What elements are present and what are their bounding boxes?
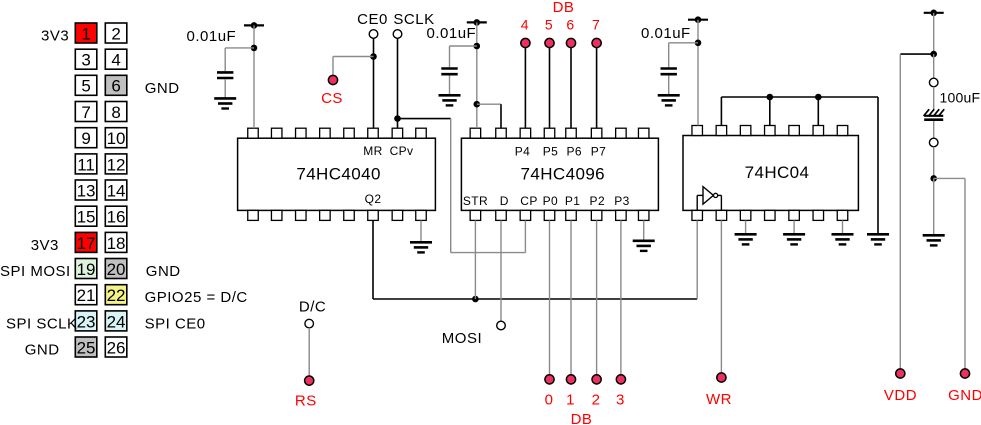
ground for C1 [214, 98, 236, 108]
ground for C3 [658, 95, 680, 105]
terminal VDD [896, 369, 905, 378]
connector J1 pin 15 [75, 206, 97, 226]
terminal DB2 [592, 375, 601, 384]
terminal DB7 [592, 38, 601, 47]
U3 top pin 4 [765, 126, 776, 136]
wire U2 P3 pin down to DB3 [620, 220, 622, 374]
svg-text:13: 13 [77, 181, 96, 200]
svg-text:CS: CS [321, 90, 343, 107]
svg-text:19: 19 [77, 260, 96, 279]
svg-text:CE0: CE0 [357, 11, 388, 28]
junction U3 top pin 4 [767, 94, 774, 101]
connector J1 pin 14 [105, 180, 127, 200]
connector J1 pin 21 [75, 285, 97, 305]
node CE0 [369, 30, 378, 39]
svg-text:4: 4 [521, 17, 529, 33]
connector J1 pin 23 (SPI SCLK) [75, 311, 97, 331]
capacitor C4 100uF electrolytic [924, 109, 945, 120]
node D/C [305, 319, 314, 328]
svg-text:GND: GND [25, 342, 60, 359]
connector J1 pin 16 [105, 206, 127, 226]
connector J1 pin 18 [105, 232, 127, 252]
wire rail down to ground symbol [933, 178, 935, 234]
connector J1 pin 24 (SPI CE0) [105, 311, 127, 331]
ground at U2 pin 8 [633, 241, 655, 251]
ground at U3 pin [735, 234, 757, 244]
svg-text:CP: CP [520, 194, 537, 208]
wire SCLK branch to U2 CP pin [398, 119, 526, 253]
terminal RS [305, 376, 314, 385]
wire U2 P2 pin down to DB2 [596, 220, 598, 374]
svg-text:17: 17 [77, 234, 96, 253]
wire CE0 down to U1 MR pin [373, 38, 375, 128]
wire D/C down to RS [308, 328, 310, 376]
wire rail to C4 top terminal [933, 54, 935, 78]
terminal WR [717, 373, 726, 382]
capacitor C2 0.01uF [441, 46, 457, 95]
U1 bottom pin 6 [368, 210, 379, 220]
wire 3V3 rail down to U1 pin (VDD) [253, 25, 255, 128]
ground at U3 pin [783, 234, 805, 244]
svg-text:MOSI: MOSI [442, 330, 482, 347]
connector J1 pin 10 [105, 128, 127, 148]
svg-text:P5: P5 [543, 144, 558, 158]
svg-text:GND: GND [146, 263, 181, 280]
wire U2 P0 pin down to DB0 [549, 220, 551, 374]
svg-text:15: 15 [77, 208, 96, 227]
wire U2 D pin down to MOSI [500, 220, 502, 321]
svg-text:0: 0 [545, 392, 554, 409]
svg-text:5: 5 [81, 77, 90, 96]
U1 bottom pin 8 [416, 210, 427, 220]
wire DB4 down to U2 P4 pin [524, 48, 526, 129]
svg-text:1: 1 [81, 24, 90, 43]
U1 bottom pin 3 [296, 210, 307, 220]
svg-text:P1: P1 [565, 194, 580, 208]
connector J1 pin 12 [105, 154, 127, 174]
svg-text:74HC4096: 74HC4096 [521, 165, 605, 184]
svg-text:8: 8 [111, 103, 120, 122]
U1 top pin 8 [416, 128, 427, 138]
U2 top pin 5 [566, 128, 577, 138]
node SCLK [393, 30, 402, 39]
ground for U3 unused inputs [867, 234, 889, 244]
svg-text:GPIO25 = D/C: GPIO25 = D/C [145, 289, 248, 306]
terminal DB3 [616, 375, 625, 384]
wire Q2 net from U1 to U3 input [373, 220, 697, 299]
U2 bottom pin 1 [470, 210, 481, 220]
svg-text:0.01uF: 0.01uF [187, 28, 237, 45]
wire GND branch right and down to terminal [934, 178, 965, 369]
svg-text:0.01uF: 0.01uF [641, 25, 691, 42]
U1 bottom pin 7 [392, 210, 403, 220]
wire CS elbow [333, 57, 374, 76]
junction GND branch [930, 175, 937, 182]
terminal CS [328, 75, 337, 84]
U1 bottom pin 5 [344, 210, 355, 220]
wire to C3 [669, 42, 698, 44]
svg-text:9: 9 [81, 129, 90, 148]
wire DB5 down to U2 P5 pin [549, 48, 551, 129]
wire branch to U2 pin 2 [477, 104, 501, 128]
svg-text:DB: DB [571, 411, 593, 425]
U2 bottom pin 4 [544, 210, 555, 220]
svg-text:MR: MR [363, 144, 382, 158]
ground at U1 pin 8 [410, 242, 432, 252]
svg-text:7: 7 [81, 103, 90, 122]
junction SCLK branch [394, 115, 401, 122]
connector J1 pin 4 [105, 49, 127, 69]
wire supply rail down [933, 13, 935, 54]
U1 top pin 5 [344, 128, 355, 138]
3V3 power tick for U3 rail [688, 16, 708, 23]
U3 bottom pin 1 [692, 210, 703, 220]
terminal DB1 [566, 375, 575, 384]
svg-text:P4: P4 [515, 144, 530, 158]
svg-text:74HC4040: 74HC4040 [296, 165, 380, 184]
connector J1 pin 7 [75, 102, 97, 122]
svg-text:25: 25 [77, 338, 96, 357]
svg-text:100uF: 100uF [940, 90, 981, 106]
junction STR tap [472, 296, 479, 303]
svg-text:P3: P3 [614, 194, 629, 208]
connector J1 pin 9 [75, 128, 97, 148]
svg-text:RS: RS [295, 393, 317, 410]
junction at C1 tap [251, 45, 258, 52]
U3 bottom pin 6 [813, 210, 824, 220]
junction U3 top pin 6 [815, 94, 822, 101]
svg-text:CPv: CPv [390, 144, 414, 158]
connector J1 pin 11 [75, 154, 97, 174]
terminal DB0 [545, 375, 554, 384]
junction at C3 tap [695, 40, 702, 47]
node MOSI [497, 321, 506, 330]
svg-text:3: 3 [81, 51, 90, 70]
junction VDD branch [930, 51, 937, 58]
svg-text:Q2: Q2 [365, 192, 382, 206]
U2 bottom pin 3 [520, 210, 531, 220]
svg-text:3V3: 3V3 [31, 237, 59, 254]
svg-text:14: 14 [107, 181, 126, 200]
svg-text:D/C: D/C [299, 299, 326, 316]
wire to C1 [225, 47, 254, 49]
svg-text:6: 6 [566, 17, 574, 33]
wire to C2 [450, 45, 477, 47]
IC U2 74HC4096 body [461, 138, 658, 210]
inverter gate inside U3 [697, 187, 721, 211]
wire DB7 down to U2 P7 pin [596, 48, 598, 129]
svg-text:2: 2 [111, 24, 120, 43]
junction at C2 tap [474, 43, 481, 50]
terminal DB5 [545, 38, 554, 47]
U3 top pin 2 [716, 126, 727, 136]
connector J1 pin 6 (GND) [105, 75, 127, 95]
U1 top pin 2 [271, 128, 282, 138]
U2 top pin 1 [470, 128, 481, 138]
svg-text:26: 26 [107, 338, 126, 357]
U1 bottom pin 1 [248, 210, 259, 220]
connector J1 pin 5 [75, 75, 97, 95]
wire DB6 down to U2 P6 pin [570, 48, 572, 129]
connector pin above C4 [929, 78, 938, 87]
U3 bottom pin 4 [765, 210, 776, 220]
connector J1 pin 2 [105, 23, 127, 43]
connector J1 pin 3 [75, 49, 97, 69]
svg-text:P6: P6 [566, 144, 581, 158]
U3 bottom pin 5 [789, 210, 800, 220]
wire U3 inverter output to WR [720, 220, 722, 373]
svg-text:D: D [500, 194, 509, 208]
svg-text:20: 20 [107, 260, 126, 279]
svg-text:GND: GND [145, 80, 180, 97]
wire SCLK down to U1 CPv pin [397, 38, 399, 128]
connector J1 pin 20 (GND) [105, 259, 127, 279]
svg-text:6: 6 [111, 77, 120, 96]
ground for supply rail [923, 235, 945, 245]
U2 top pin 4 [544, 128, 555, 138]
svg-text:1: 1 [566, 392, 575, 409]
U2 top pin 8 [638, 128, 649, 138]
connector J1 pin 13 [75, 180, 97, 200]
svg-text:74HC04: 74HC04 [745, 163, 810, 182]
junction CS tap [370, 53, 377, 60]
connector J1 pin 17 (3V3) [75, 232, 97, 252]
U3 bottom pin 2 [716, 210, 727, 220]
wire 3V3 rail down to U3 pin 1 [697, 20, 699, 126]
U2 top pin 7 [616, 128, 627, 138]
wire 3V3 rail down to U2 pin 1 [476, 22, 478, 128]
terminal GND [960, 369, 969, 378]
wire down to GND junction [933, 147, 935, 179]
U3 top pin 1 [692, 126, 703, 136]
wire C4 to lower connector pin [933, 121, 935, 138]
svg-text:P0: P0 [543, 194, 558, 208]
wire U3 pin to ground [793, 220, 795, 233]
IC U3 74HC04 body [683, 136, 858, 211]
U1 top pin 4 [320, 128, 331, 138]
svg-text:STR: STR [463, 194, 488, 208]
svg-text:7: 7 [592, 17, 600, 33]
U2 top pin 2 [496, 128, 507, 138]
wire to C4 [933, 87, 935, 109]
U3 top pin 6 [813, 126, 824, 136]
wire U1 pin 8 to ground [420, 220, 422, 241]
U3 bottom pin 3 [740, 210, 751, 220]
U1 top pin 7 [392, 128, 403, 138]
wire VDD down to terminal [899, 54, 901, 369]
ground for C2 [439, 95, 461, 105]
wire VDD branch left [900, 53, 933, 55]
U1 top pin 3 [296, 128, 307, 138]
svg-text:16: 16 [107, 208, 126, 227]
connector J1 pin 22 (GPIO25 D/C) [105, 285, 127, 305]
capacitor C3 0.01uF [661, 43, 677, 96]
svg-text:SPI SCLK: SPI SCLK [6, 315, 78, 332]
connector J1 pin 26 [105, 337, 127, 357]
U2 top pin 6 [591, 128, 602, 138]
wire U2 pin 8 to ground [643, 220, 645, 239]
svg-text:SCLK: SCLK [393, 11, 434, 28]
svg-text:3: 3 [616, 392, 625, 409]
wire U2 P1 pin down to DB1 [570, 220, 572, 374]
U3 top pin 5 [789, 126, 800, 136]
U2 bottom pin 8 [638, 210, 649, 220]
U2 bottom pin 6 [591, 210, 602, 220]
U3 top pin 7 [837, 126, 848, 136]
U1 top pin 1 [248, 128, 259, 138]
3V3 power tick for supply rail [924, 10, 944, 17]
wire STR to Q2 net [474, 220, 476, 299]
3V3 power tick for U2 rail [467, 19, 487, 26]
ground at U3 pin [832, 234, 854, 244]
connector J1 pin 19 (SPI MOSI) [75, 259, 97, 279]
U1 top pin 6 [368, 128, 379, 138]
U1 bottom pin 2 [271, 210, 282, 220]
svg-text:SPI CE0: SPI CE0 [145, 315, 206, 332]
svg-text:10: 10 [107, 129, 126, 148]
svg-text:VDD: VDD [884, 387, 917, 404]
U3 bottom pin 7 [837, 210, 848, 220]
connector J1 pin 8 [105, 102, 127, 122]
svg-text:24: 24 [107, 312, 126, 331]
U1 bottom pin 4 [320, 210, 331, 220]
U3 top pin 3 [740, 126, 751, 136]
svg-text:3V3: 3V3 [41, 28, 69, 45]
svg-text:WR: WR [706, 391, 732, 408]
svg-text:21: 21 [77, 286, 96, 305]
svg-text:12: 12 [107, 155, 126, 174]
svg-text:5: 5 [545, 17, 553, 33]
svg-text:22: 22 [107, 286, 126, 305]
svg-text:DB: DB [553, 0, 575, 16]
wire U3 pin to ground [745, 220, 747, 233]
U2 top pin 3 [520, 128, 531, 138]
terminal DB6 [566, 38, 575, 47]
junction 3V3 to U2 pin 2 branch [474, 101, 481, 108]
svg-text:4: 4 [111, 51, 120, 70]
svg-text:23: 23 [77, 312, 96, 331]
svg-text:P2: P2 [590, 194, 605, 208]
connector J1 pin 25 (GND) [75, 337, 97, 357]
svg-text:SPI MOSI: SPI MOSI [0, 263, 71, 280]
svg-text:P7: P7 [591, 144, 606, 158]
3V3 power tick for U1 rail [244, 22, 264, 29]
U2 bottom pin 7 [616, 210, 627, 220]
terminal DB4 [521, 38, 530, 47]
wire U3 unused inputs to ground rail [721, 97, 878, 233]
U2 bottom pin 2 [496, 210, 507, 220]
connector J1 pin 1 (3V3) [75, 23, 97, 43]
svg-text:GND: GND [948, 387, 981, 404]
wire U3 pin to ground [842, 220, 844, 233]
capacitor C1 0.01uF [217, 48, 233, 99]
connector pin below C4 [929, 138, 938, 147]
svg-text:11: 11 [77, 155, 95, 174]
svg-text:2: 2 [592, 392, 601, 409]
svg-text:18: 18 [107, 234, 126, 253]
U2 bottom pin 5 [566, 210, 577, 220]
IC U1 74HC4040 body [238, 138, 436, 210]
